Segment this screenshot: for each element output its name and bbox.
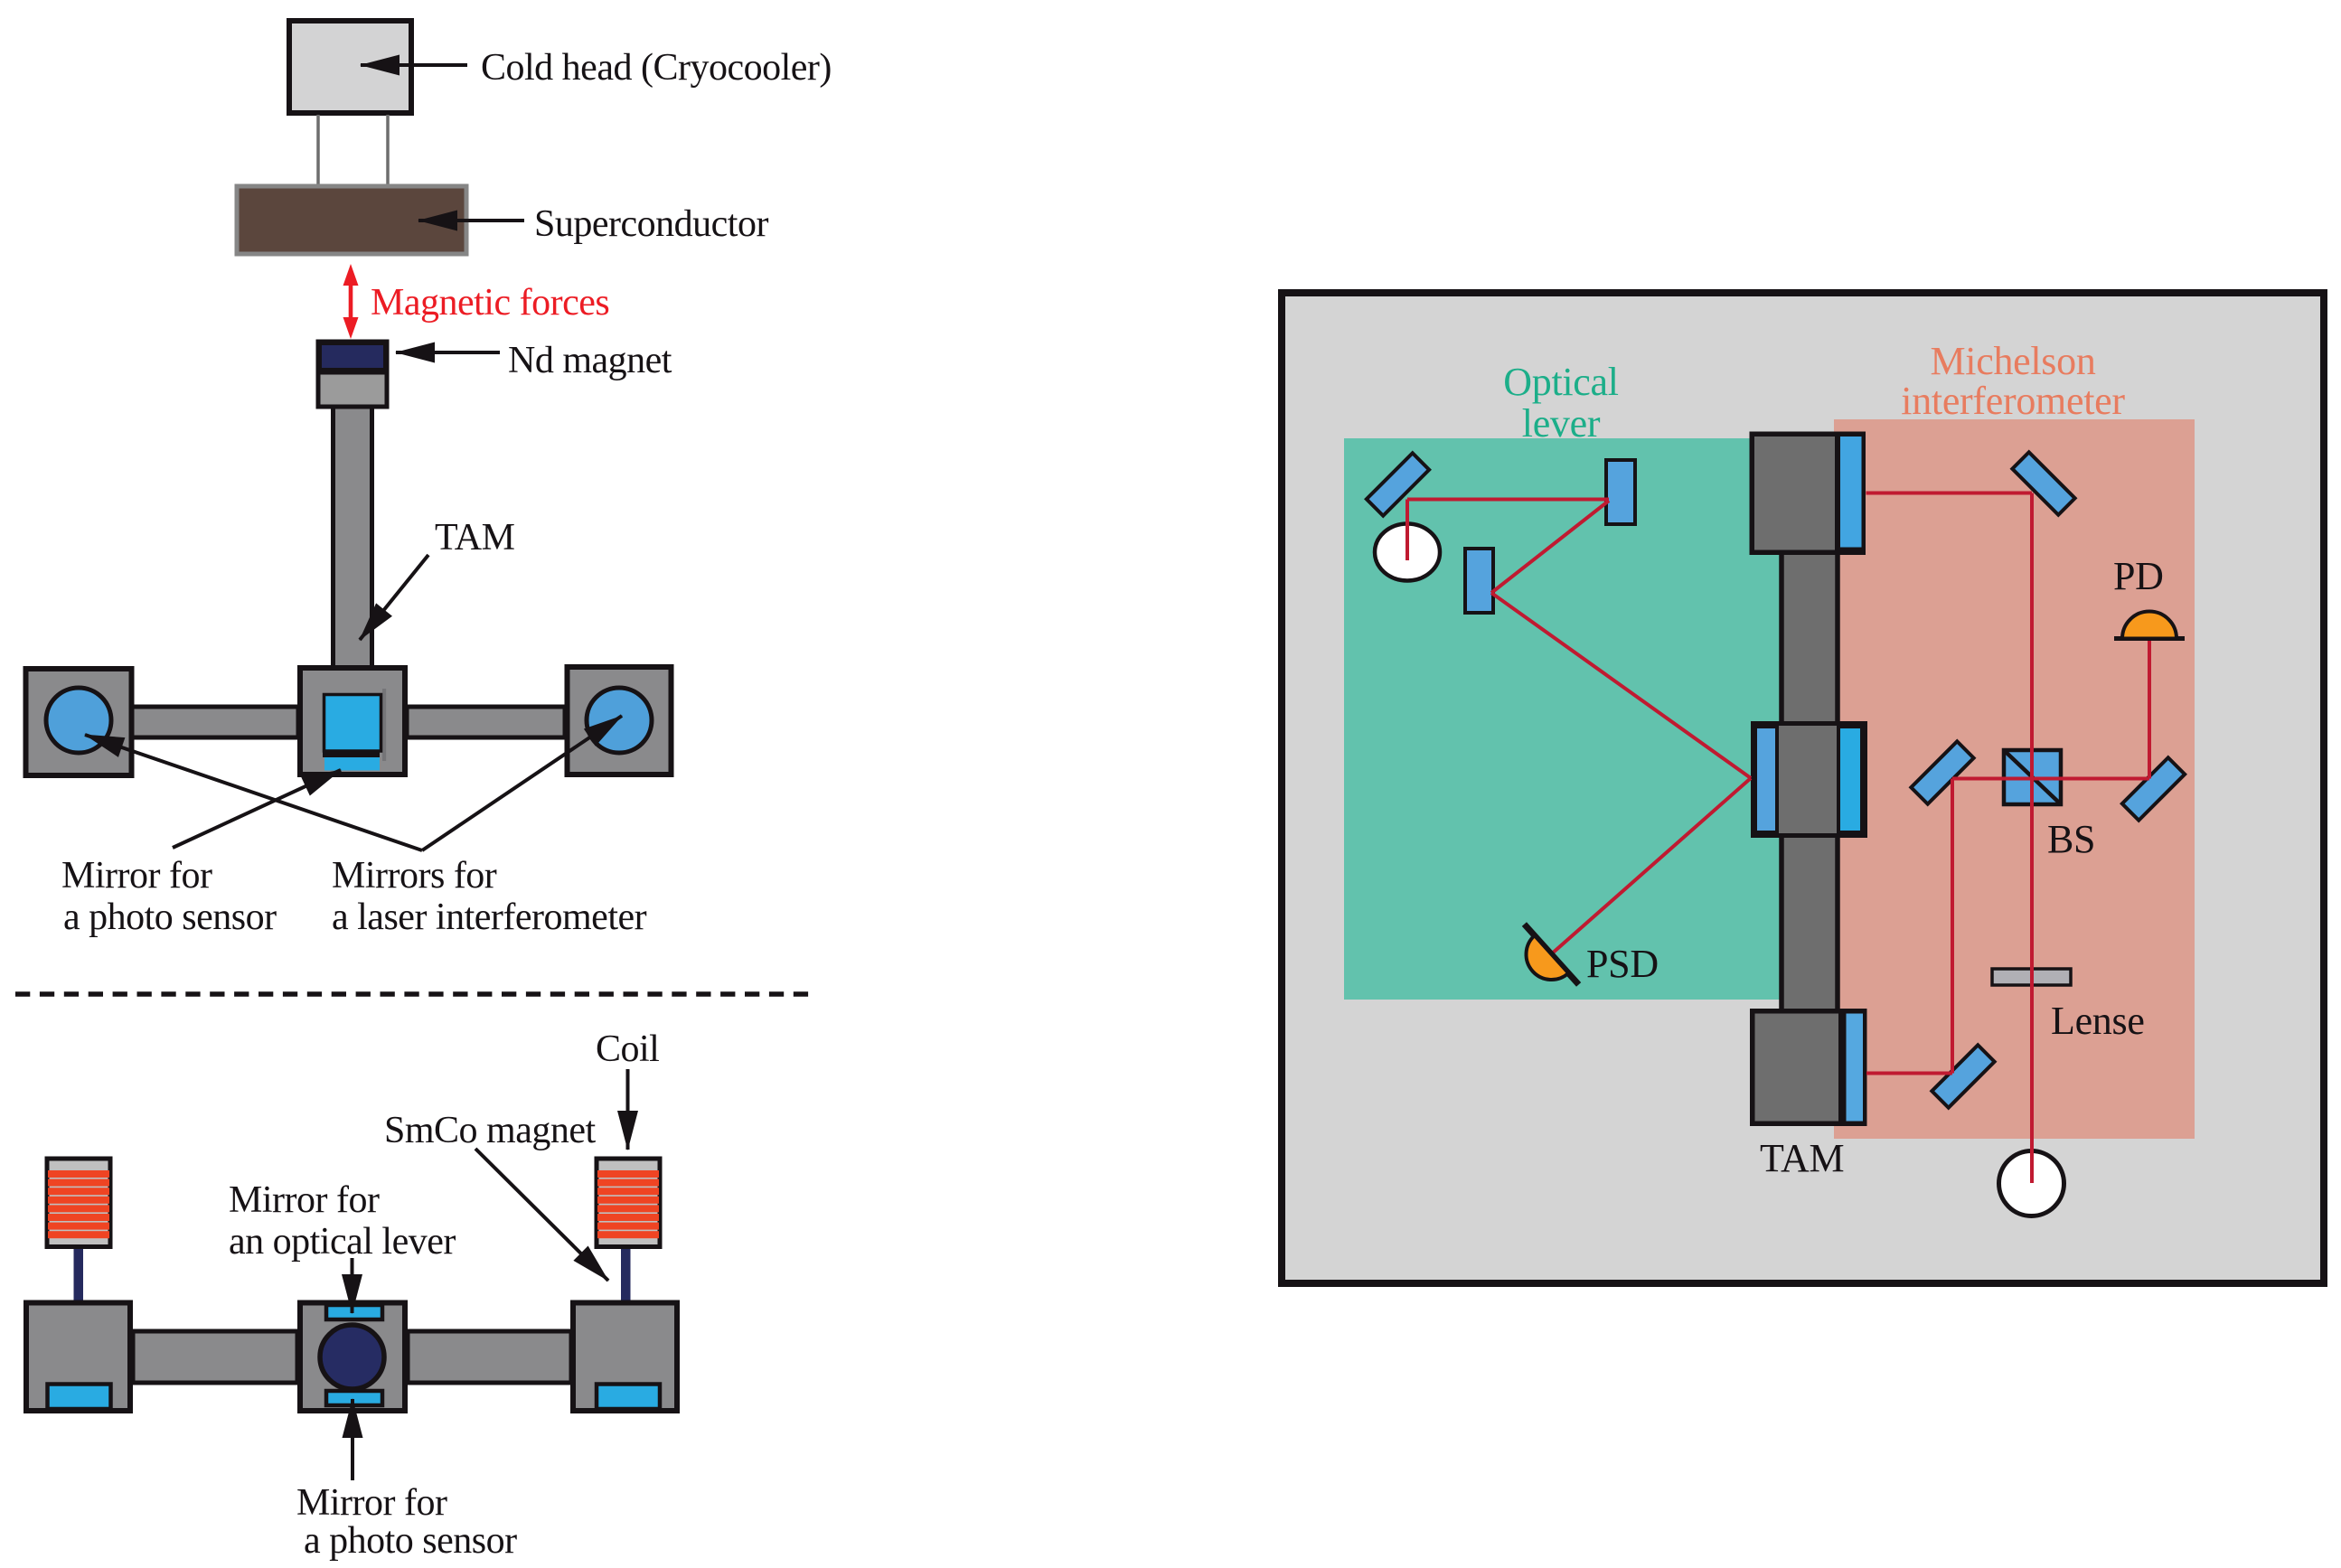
beam: TAM middle mirror to PSD xyxy=(1551,778,1751,954)
beam: small mirror to TAM middle mirror xyxy=(1491,593,1751,778)
lower center block xyxy=(300,1303,405,1412)
michelson bottom tilted mirror xyxy=(1932,1045,1994,1107)
optical lever region (teal) xyxy=(1344,438,1781,1000)
svg-text:PSD: PSD xyxy=(1586,942,1659,986)
michelson top tilted mirror xyxy=(2012,452,2074,514)
arrow to superconductor xyxy=(418,219,524,222)
svg-text:Mirror for: Mirror for xyxy=(61,855,212,897)
svg-text:TAM: TAM xyxy=(435,517,515,559)
michelson laser (white circle) xyxy=(1999,1151,2064,1216)
beam: vertical mirror to small mirror xyxy=(1491,501,1609,593)
optical lever tilted mirror xyxy=(1367,453,1429,515)
svg-text:lever: lever xyxy=(1522,401,1601,446)
PD symbol xyxy=(2114,612,2185,639)
right arm bar xyxy=(407,707,565,737)
black divider under cyan mirror xyxy=(323,750,380,757)
beam: bottom mirror to TAM bottom mirror xyxy=(1866,1072,1952,1075)
right mirror circle xyxy=(587,688,652,753)
arrow to bottom photo-sensor mirror xyxy=(351,1399,354,1480)
leader line to photo-sensor mirror strip xyxy=(173,770,341,848)
right block cyan mirror xyxy=(597,1385,660,1410)
leader line to right circle xyxy=(422,716,622,850)
TAM rod (upper) xyxy=(334,407,372,669)
center top cyan mirror (optical lever) xyxy=(326,1305,382,1319)
shadow strip right of cyan mirror xyxy=(382,689,386,761)
svg-text:a photo sensor: a photo sensor xyxy=(304,1520,517,1562)
svg-text:a photo sensor: a photo sensor xyxy=(63,897,277,938)
TAM top mirror xyxy=(1840,437,1862,548)
arrow to TAM rod xyxy=(360,555,428,640)
arrow to Nd magnet xyxy=(396,351,500,354)
svg-text:Mirror for: Mirror for xyxy=(229,1179,380,1221)
panel box xyxy=(1282,293,2324,1283)
svg-text:a laser interferometer: a laser interferometer xyxy=(332,897,647,938)
svg-text:Magnetic forces: Magnetic forces xyxy=(371,282,609,324)
magnetic forces double arrow xyxy=(343,264,359,339)
arrow to cold head xyxy=(361,63,467,67)
center bottom cyan mirror (photo sensor) xyxy=(326,1391,382,1405)
beam: vertical main beam through BS and lense xyxy=(2030,493,2034,1184)
optical lever small mirror xyxy=(1465,549,1493,613)
Nd magnet (navy) xyxy=(320,343,385,370)
Nd magnet holder box xyxy=(318,342,387,407)
arrow from Coil label xyxy=(626,1069,630,1150)
svg-text:SmCo magnet: SmCo magnet xyxy=(384,1110,596,1151)
svg-text:BS: BS xyxy=(2047,817,2095,861)
svg-text:Optical: Optical xyxy=(1503,360,1618,404)
svg-text:Lense: Lense xyxy=(2051,999,2145,1043)
dashed divider line xyxy=(15,991,811,997)
left arm block xyxy=(26,669,132,775)
center block xyxy=(300,668,405,775)
beam: BS-left mirror down xyxy=(1951,779,1954,1074)
Lense bar xyxy=(1992,969,2071,985)
svg-text:Mirror for: Mirror for xyxy=(296,1482,447,1524)
optical lever laser (white ellipse) xyxy=(1375,524,1440,581)
TAM bottom mirror xyxy=(1847,1014,1864,1122)
left SmCo magnet stem xyxy=(74,1249,84,1300)
leader line to left circle xyxy=(85,735,422,850)
svg-text:Cold head (Cryocooler): Cold head (Cryocooler) xyxy=(481,47,832,89)
TAM bottom block xyxy=(1750,1009,1867,1126)
beam: TAM top mirror to top tilted mirror xyxy=(1866,492,2033,495)
TAM top block xyxy=(1750,432,1866,556)
beam: tilted mirror to vertical mirror xyxy=(1407,498,1609,502)
svg-text:Mirrors for: Mirrors for xyxy=(332,855,497,897)
svg-text:interferometer: interferometer xyxy=(1901,379,2125,423)
lower left block xyxy=(26,1303,130,1412)
lower right bar xyxy=(408,1331,571,1383)
superconductor block xyxy=(237,186,466,254)
right SmCo magnet stem xyxy=(621,1249,631,1300)
lower left bar xyxy=(133,1331,297,1383)
svg-text:an optical lever: an optical lever xyxy=(229,1221,456,1263)
TAM middle block xyxy=(1753,724,1866,836)
svg-text:Superconductor: Superconductor xyxy=(534,203,768,245)
TAM middle right mirror xyxy=(1838,727,1862,832)
cold head box xyxy=(289,21,411,113)
left coil xyxy=(47,1159,110,1247)
TAM rod (right panel) xyxy=(1782,470,1838,1057)
svg-text:PD: PD xyxy=(2113,554,2164,598)
lower right block xyxy=(573,1303,677,1412)
left block cyan mirror xyxy=(48,1385,111,1410)
PSD symbol xyxy=(1506,925,1579,1002)
left arm bar xyxy=(132,707,298,737)
cold head right leg wire xyxy=(386,115,390,184)
optical lever vertical mirror xyxy=(1606,460,1635,524)
svg-text:TAM: TAM xyxy=(1760,1136,1844,1180)
arrow from optical-lever label xyxy=(351,1258,354,1313)
center navy sphere xyxy=(320,1325,384,1389)
michelson region (salmon) xyxy=(1834,419,2195,1139)
svg-text:Coil: Coil xyxy=(596,1028,659,1070)
cyan mirror strip (photo sensor) xyxy=(324,757,380,771)
BS-right tilted mirror xyxy=(2122,757,2185,820)
svg-text:Nd magnet: Nd magnet xyxy=(508,340,672,381)
BS cube xyxy=(2004,750,2061,804)
cold head left leg wire xyxy=(316,115,320,184)
cyan mirror square (laser interferometer) xyxy=(324,695,381,752)
svg-text:Michelson: Michelson xyxy=(1930,339,2095,383)
divider line xyxy=(318,371,387,375)
beam: to PD xyxy=(2148,641,2151,779)
left mirror circle xyxy=(46,688,111,753)
beam: horizontal through BS xyxy=(1952,777,2149,781)
TAM middle left mirror xyxy=(1755,727,1777,832)
right coil xyxy=(597,1159,660,1247)
beam: laser to tilted mirror xyxy=(1406,500,1409,561)
right arm block xyxy=(568,667,672,775)
BS-left tilted mirror xyxy=(1911,741,1973,803)
arrow to SmCo magnet stem xyxy=(475,1149,608,1281)
